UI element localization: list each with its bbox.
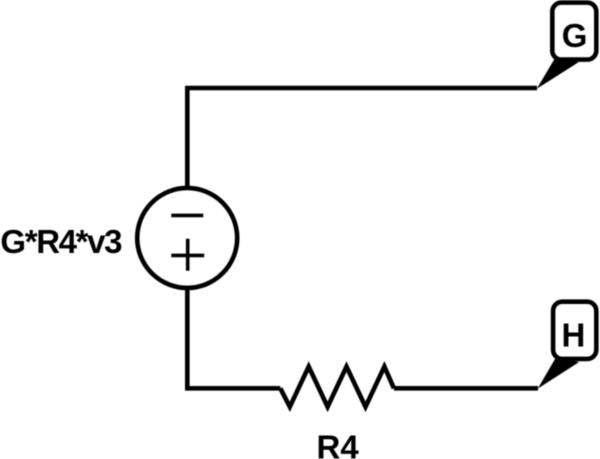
svg-text:G*R4*v3: G*R4*v3 xyxy=(0,223,122,260)
plus sign inside source xyxy=(171,239,204,271)
svg-text:H: H xyxy=(561,317,585,354)
resistor R4 zigzag body xyxy=(280,367,394,407)
wire: source bottom terminal down to bottom rail xyxy=(187,288,280,388)
net flag H box xyxy=(553,302,596,359)
net flag G pointer triangle xyxy=(537,57,579,89)
net flag H pointer triangle xyxy=(538,357,579,389)
wire: resistor right lead to flag H xyxy=(394,386,538,391)
svg-text:G: G xyxy=(562,17,588,54)
svg-text:R4: R4 xyxy=(317,428,360,459)
net flag G box xyxy=(552,3,596,60)
source U1: dependent voltage source circle xyxy=(137,188,237,288)
wire: source top terminal up and right to flag G xyxy=(187,88,537,190)
minus sign inside source xyxy=(171,214,203,218)
